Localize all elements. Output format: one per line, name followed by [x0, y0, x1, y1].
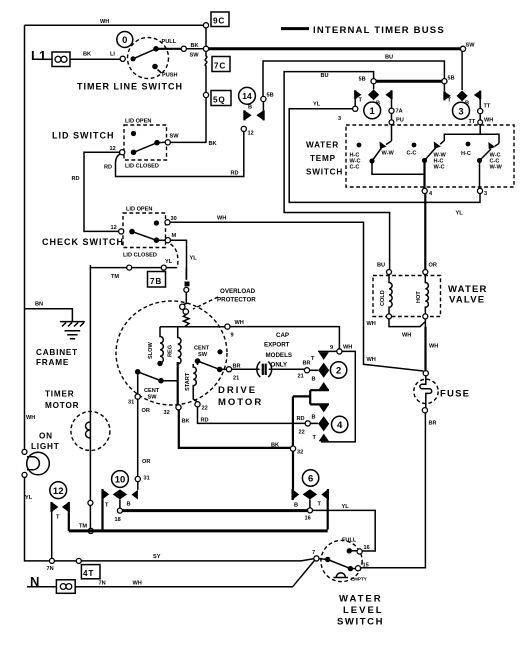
svg-text:WH: WH [343, 345, 352, 351]
svg-text:OR: OR [142, 459, 150, 465]
water temp switch dashed box [346, 125, 514, 187]
node 22 contact4 [305, 421, 310, 426]
contact 4 bottom triangle [319, 434, 329, 442]
node OR valve top [423, 270, 428, 275]
svg-text:5B: 5B [448, 76, 455, 82]
node 31 lower [135, 476, 140, 481]
svg-text:18: 18 [115, 517, 121, 523]
node 5B right [442, 79, 447, 84]
svg-text:RD: RD [104, 165, 112, 171]
svg-text:FULL: FULL [342, 538, 357, 544]
timer motor dashed circle [71, 412, 110, 451]
svg-text:BK: BK [191, 43, 199, 49]
circled 2 [330, 362, 346, 378]
node SW lid switch [165, 140, 170, 145]
full contact dot [347, 548, 352, 553]
svg-text:W-W: W-W [490, 165, 503, 171]
svg-text:EMPTY: EMPTY [351, 577, 367, 582]
svg-text:L1: L1 [31, 48, 46, 63]
wire contact6 left arm from 32 [292, 451, 294, 490]
node LI terminal [120, 56, 125, 61]
svg-text:WH: WH [133, 581, 142, 587]
wire contact 10 stem to 18 [119, 500, 121, 509]
svg-text:RD: RD [72, 176, 80, 182]
contact block 2-4 top line [318, 351, 355, 442]
cent sw right [194, 346, 227, 373]
svg-text:WH: WH [402, 333, 411, 339]
svg-text:SWITCH: SWITCH [337, 617, 384, 628]
svg-text:21: 21 [298, 374, 304, 380]
svg-text:1: 1 [370, 106, 376, 117]
node 32 motor [176, 405, 181, 410]
svg-text:SW: SW [466, 43, 476, 49]
winding REG [168, 327, 182, 364]
svg-text:10: 10 [115, 475, 126, 486]
contact 2 upper triangle [319, 352, 329, 360]
ground symbol cabinet frame [60, 322, 85, 339]
svg-text:BU: BU [321, 73, 329, 79]
svg-text:16: 16 [305, 516, 311, 522]
wire YL check M down to overload [170, 240, 186, 280]
lid open contact dot [131, 131, 136, 136]
svg-text:3: 3 [338, 116, 341, 122]
node 7 water level [314, 556, 319, 561]
node BU valve top [387, 270, 392, 275]
linkage dashed curve M to TM wire [171, 244, 178, 267]
svg-text:T: T [105, 503, 109, 509]
svg-text:31: 31 [128, 400, 134, 406]
contact 12 triangles [52, 502, 69, 521]
solenoid HOT [416, 275, 428, 314]
svg-text:PROTECTOR: PROTECTOR [217, 297, 256, 304]
svg-text:12: 12 [111, 225, 117, 231]
svg-text:B: B [248, 105, 252, 111]
node 12 check switch [119, 229, 124, 234]
wire contact10 left arm thick to TM buss [101, 500, 103, 530]
svg-text:0: 0 [122, 35, 127, 46]
svg-text:TM: TM [79, 524, 87, 530]
node 5Q junction [203, 92, 208, 97]
node TT [478, 109, 483, 114]
contact 10 triangles and diamond [103, 489, 138, 509]
svg-text:7: 7 [312, 550, 315, 556]
wire BR right rail fuse to 15 [361, 413, 426, 568]
svg-text:PU: PU [396, 118, 404, 124]
svg-text:WH: WH [100, 19, 109, 25]
svg-text:YL: YL [165, 259, 173, 265]
svg-text:16: 16 [364, 545, 370, 551]
svg-text:B: B [294, 503, 298, 509]
wire BK motor 32 [177, 362, 179, 405]
contact 14 triangles [244, 102, 263, 121]
svg-text:SW: SW [148, 395, 158, 401]
svg-text:SLOW: SLOW [148, 342, 154, 359]
check switch arm [129, 229, 135, 235]
timer line switch pivot and arm [131, 56, 136, 61]
svg-text:H-C: H-C [461, 151, 471, 157]
circled 1 [364, 102, 381, 119]
node hot bottom [423, 314, 428, 319]
svg-text:YL: YL [25, 495, 33, 501]
node WH contact2 top [337, 349, 342, 354]
contact 4 diamond [318, 416, 329, 431]
node 5B contact 14 feed [261, 96, 266, 101]
svg-text:PUSH: PUSH [162, 73, 178, 79]
svg-text:7N: 7N [99, 581, 106, 587]
svg-text:T: T [448, 98, 452, 104]
node 3 WTS [477, 188, 482, 193]
terminal box 4T [81, 565, 100, 579]
capacitor export [232, 362, 305, 378]
svg-text:5Q: 5Q [213, 96, 226, 105]
wire SY line [54, 559, 314, 561]
circled 3 [453, 102, 470, 119]
push contact dot [152, 64, 158, 70]
svg-text:T: T [313, 435, 317, 441]
circled 0 timer knob [117, 32, 133, 48]
svg-text:LID OPEN: LID OPEN [126, 207, 152, 213]
svg-text:SW: SW [190, 53, 200, 59]
terminal box 5Q [211, 91, 231, 106]
wire BU top loop contact14 to contact3 [263, 61, 444, 96]
wire BU tap to water valve [284, 72, 390, 269]
wire OR from WTS 4 [424, 194, 426, 270]
terminal box 7B [148, 272, 166, 288]
svg-text:C-C: C-C [350, 165, 360, 171]
svg-text:WH: WH [367, 321, 376, 327]
svg-text:T: T [311, 356, 315, 362]
svg-text:TEMP: TEMP [310, 154, 336, 163]
wire TM vertical through timer motor [89, 268, 91, 501]
svg-text:14: 14 [242, 91, 252, 101]
svg-text:LID OPEN: LID OPEN [125, 119, 151, 125]
node 12 contact 14 [241, 126, 246, 131]
svg-text:MODELS: MODELS [266, 352, 292, 359]
wire YL loop to WTS 3 [289, 109, 480, 203]
svg-text:FRAME: FRAME [36, 358, 69, 367]
svg-text:MOTOR: MOTOR [45, 401, 79, 410]
internal timer buss thick wire [209, 47, 461, 50]
connector plug L1 [52, 52, 70, 67]
node SW buss end [460, 46, 465, 51]
svg-text:BU: BU [377, 263, 385, 269]
wire timer rail 9C to buss [205, 28, 207, 46]
svg-text:T: T [359, 98, 363, 104]
contact 2 diamond [318, 363, 329, 378]
svg-text:M: M [172, 233, 177, 239]
svg-text:9: 9 [231, 333, 234, 339]
svg-text:CENT: CENT [194, 346, 210, 352]
svg-text:C-C: C-C [407, 151, 417, 157]
svg-text:REG: REG [168, 345, 174, 357]
wire RD lid switch 12 to check switch 12 [84, 152, 120, 231]
svg-text:DRIVE: DRIVE [218, 385, 257, 396]
wire WH 9 to contact 2 top [230, 327, 339, 349]
svg-text:BK: BK [271, 443, 279, 449]
check switch dashed box [123, 213, 166, 248]
svg-text:BK: BK [83, 52, 91, 58]
node 12 lid switch [120, 150, 125, 155]
svg-text:WATER: WATER [306, 141, 339, 150]
wire BR 21 into contact 2 [310, 369, 319, 371]
node 7A [389, 108, 394, 113]
svg-text:21: 21 [233, 376, 239, 382]
svg-text:OVERLOAD: OVERLOAD [220, 288, 256, 295]
svg-text:BR: BR [429, 421, 437, 427]
svg-text:SY: SY [153, 554, 161, 560]
timer line switch dashed circle [128, 38, 169, 79]
svg-text:W-C: W-C [434, 165, 445, 171]
svg-text:WH: WH [429, 344, 438, 350]
node 4 WTS [422, 188, 427, 193]
svg-text:W-W: W-W [382, 151, 395, 157]
svg-text:9C: 9C [213, 17, 225, 26]
circled 4 [332, 416, 348, 432]
svg-text:COLD: COLD [380, 290, 386, 306]
svg-text:TT: TT [469, 119, 476, 125]
wire PU into WTS [391, 113, 393, 119]
wire WH check switch 30 to fuse [170, 222, 423, 371]
buss thick segment 5B-5B [376, 80, 442, 83]
wire OR 31 down to contact 10 [137, 399, 139, 476]
svg-text:CENT: CENT [144, 388, 160, 394]
wire N line [27, 586, 56, 588]
timer motor winding glyph [86, 422, 91, 438]
node TM connector right [161, 265, 166, 270]
svg-text:RD: RD [231, 171, 239, 177]
contact 6 triangles and diamond [293, 489, 328, 509]
svg-text:SW: SW [170, 134, 180, 140]
wire timer rail 5Q down to lid switch SW [170, 98, 206, 143]
WTS bridge [444, 134, 499, 143]
node buss junction BK/SW [203, 46, 208, 51]
svg-text:TIMER: TIMER [45, 390, 74, 399]
terminal box 9C [211, 12, 229, 27]
wire L1 lead [37, 58, 52, 60]
node 18 [117, 508, 122, 513]
svg-text:2: 2 [336, 366, 341, 377]
svg-text:BK: BK [182, 419, 190, 425]
svg-text:INTERNAL TIMER BUSS: INTERNAL TIMER BUSS [313, 25, 445, 36]
node TM terminal [88, 528, 93, 533]
svg-text:6: 6 [308, 474, 313, 485]
svg-text:START: START [185, 372, 191, 391]
svg-text:RD: RD [201, 418, 209, 424]
winding START [185, 364, 197, 402]
node M check switch [165, 238, 170, 243]
node connector on TM wire [88, 500, 93, 505]
node motor M circle [184, 287, 189, 292]
node 21 contact2 [304, 368, 309, 373]
leader dashed to overload [193, 297, 218, 309]
svg-text:MOTOR: MOTOR [218, 397, 263, 408]
svg-text:YL: YL [313, 102, 321, 108]
svg-text:YL: YL [456, 211, 464, 217]
wire BN cabinet ground [25, 309, 73, 322]
node 21 motor [226, 367, 231, 372]
wire RD 22 to contact 4 [198, 407, 306, 424]
wire RD contact14-12 to lid switch [116, 132, 244, 177]
wire SW down to contact 3 [461, 51, 463, 90]
svg-text:CAP: CAP [276, 332, 289, 339]
svg-text:CHECK SWITCH: CHECK SWITCH [42, 237, 124, 247]
svg-text:7B: 7B [150, 277, 162, 286]
wire left rail upper (L1 side frame) [24, 25, 26, 449]
svg-text:LIGHT: LIGHT [31, 442, 60, 451]
svg-text:PULL: PULL [162, 39, 177, 45]
circled 12 [50, 482, 67, 499]
node 7N connector left [49, 558, 54, 563]
node 9 motor terminal [225, 324, 230, 329]
node 15 water level [353, 568, 356, 570]
svg-text:ONLY: ONLY [271, 362, 288, 369]
fuse symbol [414, 371, 438, 413]
wire contact12 left arm to 7N [51, 512, 53, 558]
node 22 motor [195, 402, 200, 407]
lid open contact dot check [154, 220, 159, 225]
svg-text:WH: WH [217, 216, 226, 222]
legend line internal timer buss [281, 27, 309, 30]
svg-text:TIMER LINE SWITCH: TIMER LINE SWITCH [77, 82, 183, 92]
water valve dashed box [373, 276, 441, 317]
svg-text:7A: 7A [396, 109, 403, 115]
wire TM to timer motor [90, 265, 177, 268]
wire contact3 right arm TT [479, 99, 481, 108]
svg-text:OR: OR [429, 263, 437, 269]
node 32 junction [290, 446, 295, 451]
svg-text:BK: BK [209, 141, 217, 147]
svg-text:32: 32 [297, 450, 303, 456]
svg-text:4T: 4T [83, 569, 94, 578]
svg-text:B: B [312, 415, 316, 421]
svg-text:T: T [318, 502, 322, 508]
svg-text:B: B [127, 502, 131, 508]
node 16 water level [352, 550, 357, 552]
svg-text:LEVEL: LEVEL [343, 605, 384, 616]
node M motor square [185, 282, 190, 287]
wire contact6 right arm to TM buss [327, 500, 329, 530]
svg-text:32: 32 [164, 410, 170, 416]
wire contact1 right arm 7A [391, 99, 393, 108]
svg-text:TT: TT [484, 104, 491, 110]
cent sw left [135, 369, 178, 401]
svg-text:WH: WH [235, 320, 244, 326]
svg-text:SW: SW [198, 352, 208, 358]
svg-text:5B: 5B [267, 93, 274, 99]
circled 6 [302, 470, 318, 486]
svg-text:ON: ON [39, 432, 53, 441]
terminal box 7C [212, 57, 230, 72]
svg-text:22: 22 [202, 406, 208, 412]
wire OR cent sw to 31 [137, 374, 139, 394]
winding SLOW [148, 327, 163, 366]
svg-text:WH: WH [484, 118, 493, 124]
wire BK 32 to junction [179, 410, 291, 448]
node cold bottom [387, 314, 392, 319]
svg-text:WATER: WATER [339, 594, 383, 605]
wire contact12 right arm to TM buss [68, 512, 70, 531]
svg-text:LI: LI [110, 52, 115, 58]
WTS middle group [422, 141, 471, 171]
buss thick 18 to 16 [122, 509, 307, 512]
svg-text:4: 4 [337, 420, 343, 431]
svg-text:TM: TM [111, 274, 119, 280]
circled 10 [112, 471, 129, 488]
svg-text:T: T [56, 515, 60, 521]
svg-text:22: 22 [299, 430, 305, 436]
node 3 contact1 [353, 106, 358, 111]
WTS right group [477, 142, 503, 188]
wire top WH from left rail to 9C junction [25, 24, 207, 26]
wire contact 6 stem to 16 [309, 500, 311, 509]
node 30 [165, 220, 170, 225]
label PUSH with tick [158, 70, 162, 74]
svg-text:LID CLOSED: LID CLOSED [125, 164, 159, 170]
svg-text:FUSE: FUSE [440, 389, 470, 400]
svg-text:HOT: HOT [416, 291, 422, 303]
circled 14 timer contact label [239, 87, 256, 104]
wire YL 16 to water level switch [313, 510, 376, 551]
svg-text:LID CLOSED: LID CLOSED [123, 253, 157, 259]
svg-text:BR: BR [303, 361, 311, 367]
wire contact1 left arm to YL [354, 99, 356, 106]
water level switch dashed circle [321, 540, 362, 581]
svg-text:31: 31 [144, 476, 150, 482]
wire WH N line to water level switch [75, 561, 314, 587]
wire WTS 4 thick [423, 161, 425, 189]
node 5B left [371, 79, 376, 84]
WTS left group [350, 141, 425, 174]
solenoid COLD [380, 275, 392, 314]
wire left rail lower to SY corner [25, 477, 50, 561]
drive motor dashed circle [116, 301, 227, 405]
on light bulb [22, 449, 49, 477]
wire BK to timer line switch [70, 58, 120, 60]
buss thick TM line [69, 529, 328, 532]
svg-text:LID SWITCH: LID SWITCH [52, 131, 115, 141]
svg-text:BN: BN [35, 302, 43, 308]
node SY connector right [76, 558, 81, 563]
svg-text:WATER: WATER [448, 284, 488, 295]
svg-text:5B: 5B [359, 77, 366, 83]
svg-text:7N: 7N [47, 566, 54, 572]
svg-text:SWITCH: SWITCH [306, 168, 343, 177]
lid switch dashed box [124, 125, 167, 160]
svg-text:YL: YL [190, 256, 198, 262]
svg-text:OR: OR [142, 408, 150, 414]
wire timer rail buss to 5Q with S-jog [205, 51, 207, 92]
wire switch arm to SW terminal [158, 48, 181, 50]
wire WH into WTS [479, 114, 481, 120]
svg-text:CABINET: CABINET [36, 348, 78, 357]
wire WH valve outputs merge to fuse [389, 319, 425, 327]
svg-text:3: 3 [458, 106, 463, 117]
connector plug N [56, 580, 75, 594]
dome pressure symbol [334, 573, 349, 578]
svg-text:9: 9 [330, 345, 333, 351]
wire BK stub down to 32 junction [292, 396, 294, 446]
node 16 [308, 508, 313, 513]
svg-text:30: 30 [171, 216, 177, 222]
overload protector device [180, 268, 189, 328]
node 9C junction [203, 23, 208, 28]
contact 3 cluster [444, 84, 480, 107]
water level arm [325, 557, 330, 562]
svg-text:12: 12 [110, 146, 116, 152]
wire motor top bus [160, 326, 227, 328]
svg-text:YL: YL [342, 504, 350, 510]
svg-text:BU: BU [385, 55, 393, 61]
